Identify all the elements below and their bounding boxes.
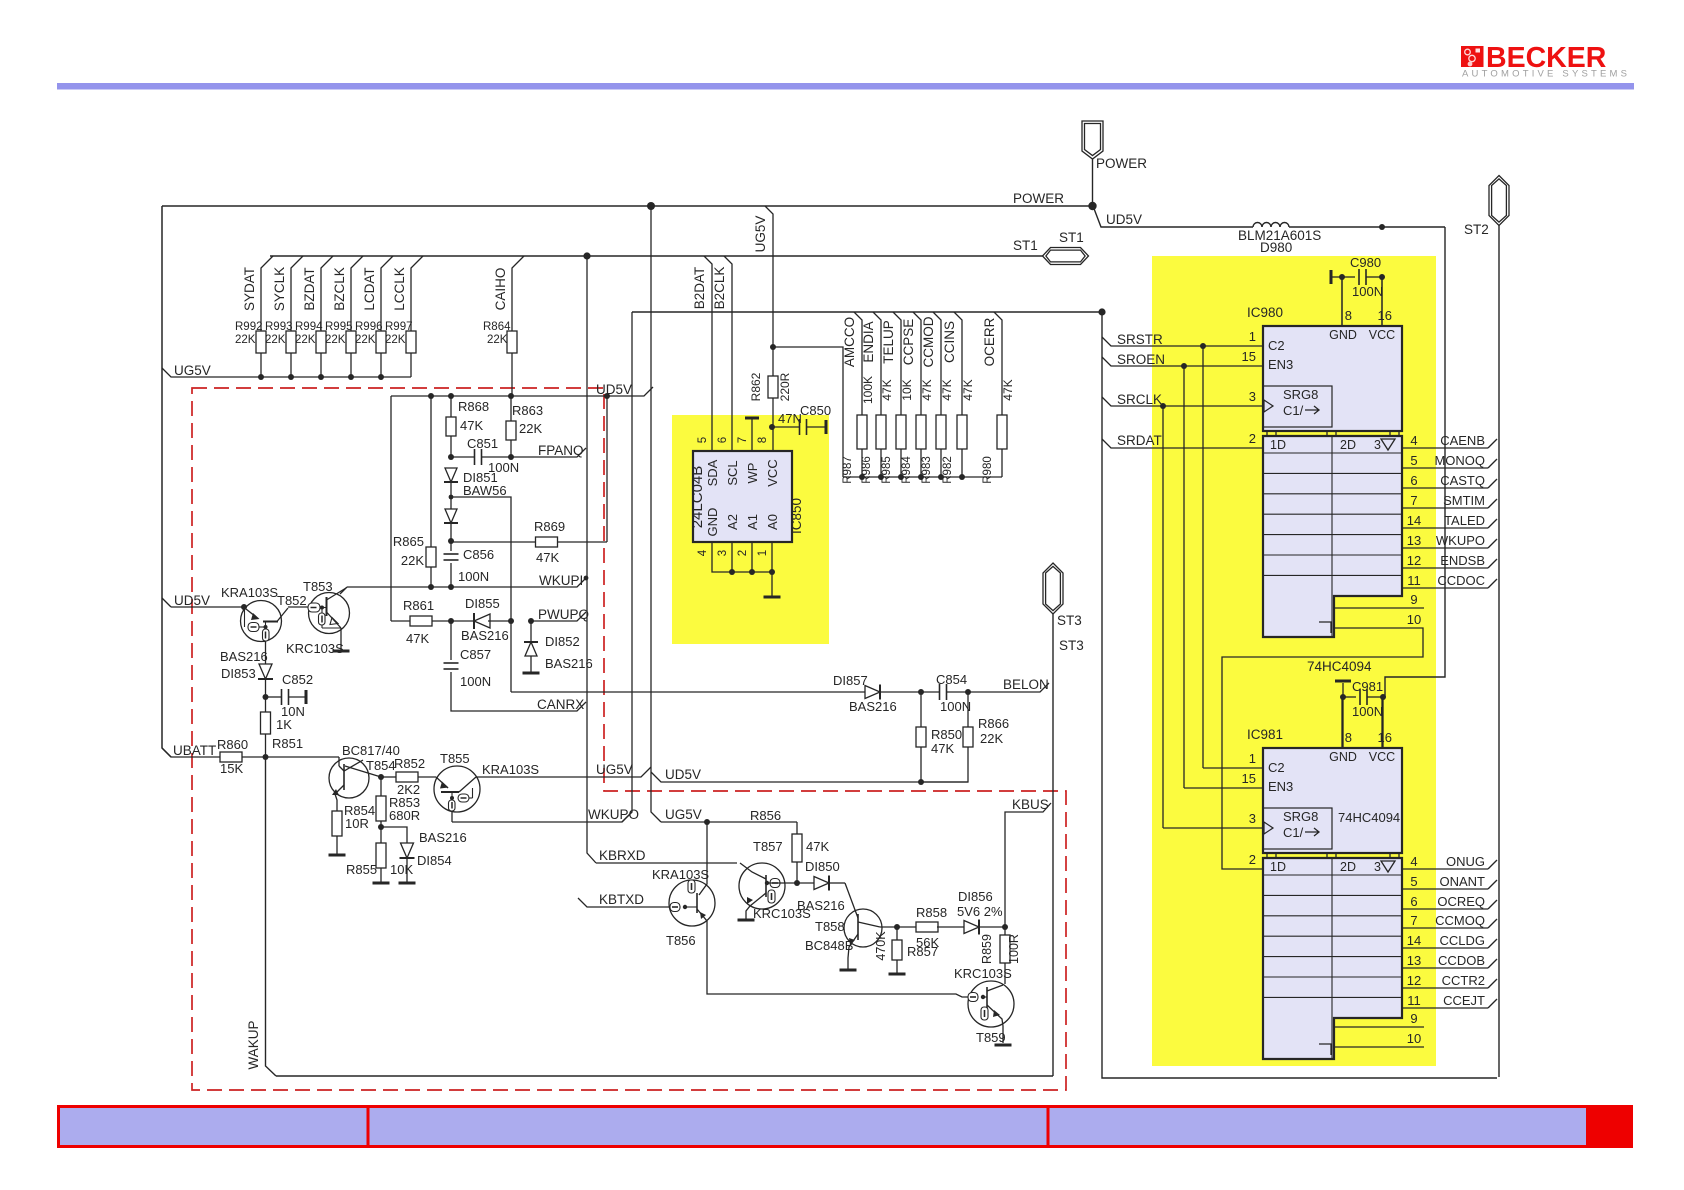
ground T858: [840, 969, 857, 972]
IC980 SRG8 box: [1263, 386, 1332, 427]
svg-text:22K: 22K: [295, 334, 316, 346]
IC850 pin 1 A0: [757, 514, 780, 556]
wire R861 row: [391, 620, 410, 622]
svg-text:3: 3: [1374, 438, 1381, 452]
node UD5V inductor junction: [1379, 224, 1385, 230]
svg-text:10: 10: [1407, 1031, 1421, 1046]
label T857: [753, 839, 783, 854]
svg-text:8: 8: [757, 437, 769, 443]
svg-text:GND: GND: [705, 508, 720, 537]
svg-text:7: 7: [1410, 493, 1417, 508]
IC850 pin 3 A2: [717, 514, 740, 556]
svg-text:CAIHO: CAIHO: [493, 268, 508, 311]
svg-text:2: 2: [737, 550, 749, 556]
capacitor C981 100N: [1335, 679, 1383, 719]
net label CCPSE: [901, 319, 916, 366]
label D980: [1260, 240, 1292, 255]
svg-text:22K: 22K: [487, 334, 508, 346]
label BELON: [1003, 677, 1049, 692]
svg-text:UD5V: UD5V: [174, 593, 210, 608]
IC981 register header: [1270, 860, 1395, 874]
wire SRSTR drop: [1202, 346, 1204, 768]
wire TALED pin14: [1402, 513, 1497, 528]
resistor R985 10K: [893, 312, 906, 477]
svg-text:UD5V: UD5V: [596, 382, 632, 397]
resistor R864 22K: [483, 256, 524, 396]
IC850 pin 7 WP: [737, 437, 760, 484]
svg-text:5: 5: [697, 437, 709, 443]
node BELON b: [965, 689, 971, 695]
svg-text:WKUPO: WKUPO: [1436, 533, 1485, 548]
IC981 pin2 label: [1249, 852, 1256, 867]
label BLM21A601S: [1238, 228, 1321, 243]
wire C980 vcc stub: [1381, 277, 1383, 326]
svg-text:R856: R856: [750, 808, 781, 823]
svg-text:4: 4: [1410, 433, 1417, 448]
svg-text:C980: C980: [1350, 255, 1381, 270]
ref label R985: [881, 456, 893, 484]
node UG5V bus junction: [318, 374, 324, 380]
label T856: [666, 933, 696, 948]
footer bar: [59, 1107, 1632, 1147]
wire IC850 gnd bus: [712, 542, 772, 572]
label ST1 b: [1059, 230, 1084, 245]
svg-text:4: 4: [697, 549, 709, 556]
wire UG5V top rail: [162, 205, 1093, 207]
net label SYCLK: [272, 267, 287, 311]
node R869 junction: [448, 538, 454, 544]
svg-text:22K: 22K: [355, 334, 376, 346]
svg-text:22K: 22K: [325, 334, 346, 346]
wire SRSTR: [1102, 332, 1263, 347]
wire ENDSB pin12: [1402, 553, 1497, 568]
node C981 right: [1380, 694, 1386, 700]
svg-text:UG5V: UG5V: [753, 216, 768, 253]
svg-text:R993: R993: [265, 321, 293, 333]
footer red block: [1586, 1105, 1633, 1148]
ref label R987: [842, 456, 854, 484]
net label LCCLK: [392, 267, 407, 311]
node ST1 rail junction: [583, 252, 590, 259]
svg-text:EN3: EN3: [1268, 357, 1293, 372]
svg-text:C1/: C1/: [1283, 825, 1304, 840]
node gnd bus A1: [749, 569, 755, 575]
node WKUPI R868col: [448, 584, 454, 590]
svg-text:R987: R987: [842, 456, 854, 484]
svg-text:DI856: DI856: [958, 889, 993, 904]
red dashed boundary: [192, 388, 1066, 1090]
net label B2CLK: [712, 267, 727, 310]
svg-text:100K: 100K: [861, 376, 875, 404]
resistor R865 22K: [393, 396, 436, 587]
svg-text:POWER: POWER: [1096, 156, 1147, 171]
svg-text:CCLDG: CCLDG: [1439, 933, 1485, 948]
svg-text:6: 6: [717, 437, 729, 443]
label FPANQ: [538, 443, 584, 458]
svg-text:SMTIM: SMTIM: [1443, 493, 1485, 508]
svg-text:ENDSB: ENDSB: [1440, 553, 1485, 568]
svg-text:ST3: ST3: [1057, 613, 1082, 628]
wire ONANT pin5: [1402, 874, 1497, 889]
svg-text:FPANQ: FPANQ: [538, 443, 584, 458]
svg-text:47K: 47K: [931, 741, 954, 756]
svg-text:47K: 47K: [940, 379, 954, 400]
IC981 pin3 wire: [1163, 811, 1263, 828]
svg-text:SRG8: SRG8: [1283, 387, 1318, 402]
svg-text:3: 3: [1249, 811, 1256, 826]
resistor R861 47K: [403, 598, 451, 646]
svg-text:T857: T857: [753, 839, 783, 854]
svg-text:10: 10: [1407, 612, 1421, 627]
svg-text:R866: R866: [978, 716, 1009, 731]
svg-text:UG5V: UG5V: [596, 762, 633, 777]
svg-text:1: 1: [757, 550, 769, 556]
net label SYDAT: [242, 267, 257, 311]
svg-text:B2DAT: B2DAT: [692, 267, 707, 310]
IC981 block notches: [1267, 853, 1399, 858]
wire x606 drop: [606, 396, 608, 542]
wire B2DAT vertical: [704, 256, 712, 451]
wire CCLDG pin14: [1402, 933, 1497, 948]
svg-text:WKUPO: WKUPO: [588, 807, 639, 822]
diode DI851 BAW56 a: [444, 468, 458, 482]
resistor R869 47K: [451, 519, 607, 565]
svg-text:SCL: SCL: [725, 460, 740, 485]
node bank bus junction: [918, 474, 924, 480]
IC980 pin3 label: [1249, 389, 1256, 404]
wire SRDAT: [1102, 433, 1263, 448]
wire UD5V rail y396: [391, 387, 653, 396]
ref label R982: [942, 456, 954, 484]
svg-text:47K: 47K: [961, 379, 975, 400]
resistor R982 47K: [954, 312, 967, 477]
label 24LC04B: [689, 466, 706, 529]
svg-text:5V6 2%: 5V6 2%: [957, 904, 1003, 919]
svg-text:PWUPQ: PWUPQ: [538, 607, 589, 622]
label BAS216 DI854: [419, 830, 467, 845]
svg-text:KBUS: KBUS: [1012, 797, 1049, 812]
svg-text:C854: C854: [936, 672, 967, 687]
node FPANQ junction R868: [448, 454, 454, 460]
node DI851 mid junction: [449, 495, 454, 500]
node UG5V T856 junction: [704, 819, 710, 825]
svg-text:MONOQ: MONOQ: [1434, 453, 1485, 468]
node POWER rail junction B: [1088, 202, 1096, 210]
label UG5V T855: [596, 762, 633, 777]
wire CAENB pin4: [1402, 433, 1497, 448]
svg-text:100N: 100N: [460, 674, 491, 689]
wire WKUPO pin13: [1402, 533, 1497, 548]
svg-text:1D: 1D: [1270, 438, 1286, 452]
svg-text:SRG8: SRG8: [1283, 809, 1318, 824]
IC980 register block: [1263, 436, 1402, 637]
label KRA103S T852: [221, 585, 278, 600]
wire T853 collector: [340, 587, 347, 594]
svg-text:KRC103S: KRC103S: [286, 641, 344, 656]
svg-text:220R: 220R: [778, 372, 792, 401]
node T857 base junction: [794, 880, 800, 886]
svg-text:CCPSE: CCPSE: [901, 319, 916, 366]
wire T857 base: [767, 882, 797, 884]
IC980 pin2 label: [1249, 431, 1256, 446]
svg-text:R860: R860: [217, 737, 248, 752]
node FPANQ junction R863: [508, 454, 514, 460]
svg-text:22K: 22K: [401, 553, 424, 568]
svg-text:R995: R995: [325, 321, 353, 333]
resistor R980 47K: [994, 312, 1007, 477]
net label TELUP: [881, 320, 896, 364]
wire UG5V drop x773: [765, 206, 773, 376]
svg-text:16: 16: [1378, 730, 1392, 745]
resistor R862 220R: [749, 372, 792, 401]
svg-text:100N: 100N: [940, 699, 971, 714]
capacitor C857 100N: [444, 621, 587, 711]
svg-text:9: 9: [1410, 592, 1417, 607]
svg-text:13: 13: [1407, 953, 1421, 968]
wire left frame vertical: [162, 206, 171, 757]
IC981 pin15 wire: [1184, 771, 1293, 794]
wire KBRXD vertical x587: [587, 256, 596, 863]
svg-text:TALED: TALED: [1444, 513, 1485, 528]
svg-text:R865: R865: [393, 534, 424, 549]
wire DI851 branch: [451, 497, 511, 692]
svg-text:SRDAT: SRDAT: [1117, 433, 1162, 448]
resistor R992 22K: [235, 256, 273, 377]
transistor T854 BC817/40: [329, 757, 369, 798]
wire PWUPQ: [531, 612, 586, 621]
svg-text:14: 14: [1407, 513, 1421, 528]
svg-text:DI857: DI857: [833, 673, 868, 688]
svg-text:R855: R855: [346, 862, 377, 877]
svg-text:KRA103S: KRA103S: [482, 762, 539, 777]
svg-text:R859: R859: [980, 934, 994, 964]
wire WKUPO vertical x632: [622, 312, 632, 822]
svg-text:CAENB: CAENB: [1440, 433, 1485, 448]
wire KBTXD: [578, 898, 670, 907]
label BC817/40: [342, 743, 400, 758]
label DI854: [417, 853, 452, 868]
svg-text:CASTQ: CASTQ: [1440, 473, 1485, 488]
svg-text:74HC4094: 74HC4094: [1338, 810, 1400, 825]
svg-text:CCMOD: CCMOD: [921, 316, 936, 367]
wire SRCLK: [1102, 392, 1263, 407]
svg-text:R851: R851: [272, 736, 303, 751]
IC980 block notches: [1267, 431, 1399, 436]
label T853: [303, 579, 333, 594]
svg-text:T852: T852: [277, 593, 307, 608]
svg-text:VCC: VCC: [1369, 750, 1395, 764]
label T855: [440, 751, 470, 766]
svg-text:1: 1: [1249, 751, 1256, 766]
svg-text:DI853: DI853: [221, 666, 256, 681]
svg-text:2: 2: [1249, 852, 1256, 867]
resistor R854 10R: [329, 794, 376, 855]
IC980 pin1 label: [1249, 329, 1285, 353]
ref label R980: [982, 456, 994, 484]
svg-text:16: 16: [1378, 308, 1392, 323]
svg-text:47K: 47K: [460, 418, 483, 433]
node UD5V rail junction: [508, 393, 514, 399]
svg-text:BC817/40: BC817/40: [342, 743, 400, 758]
svg-text:DI852: DI852: [545, 634, 580, 649]
svg-text:BAS216: BAS216: [797, 898, 845, 913]
resistor R986 47K: [873, 312, 886, 477]
resistor R996 22K: [355, 256, 393, 377]
svg-text:3: 3: [1249, 389, 1256, 404]
svg-text:15K: 15K: [220, 761, 243, 776]
wire CCDOC pin11: [1402, 573, 1497, 588]
resistor R994 22K: [295, 256, 333, 377]
wire UD5V feed: [1093, 206, 1253, 227]
svg-text:ENDIA: ENDIA: [861, 321, 876, 362]
svg-text:10K: 10K: [390, 862, 413, 877]
svg-text:100N: 100N: [458, 569, 489, 584]
svg-text:ST3: ST3: [1059, 638, 1084, 653]
node UG5V bus junction: [258, 374, 264, 380]
IC981 pin10 stub: [1334, 1031, 1424, 1047]
svg-text:7: 7: [737, 437, 749, 443]
svg-text:ST2: ST2: [1464, 222, 1489, 237]
svg-text:CCDOB: CCDOB: [1438, 953, 1485, 968]
svg-text:KRA103S: KRA103S: [221, 585, 278, 600]
resistor R997 22K: [385, 256, 423, 377]
svg-text:WKUPI: WKUPI: [539, 573, 583, 588]
label KRC103S T859: [954, 966, 1012, 981]
svg-text:BAS216: BAS216: [220, 649, 268, 664]
IC981 pin1 wire: [1203, 751, 1285, 775]
svg-text:15: 15: [1242, 771, 1256, 786]
Becker logo text: [1462, 42, 1628, 80]
svg-text:SRSTR: SRSTR: [1117, 332, 1163, 347]
svg-text:A2: A2: [725, 514, 740, 530]
transistor T853 KRC103S: [308, 588, 350, 634]
svg-text:R858: R858: [916, 905, 947, 920]
value label 47K: [920, 379, 934, 400]
connector ST1: [1043, 248, 1089, 265]
svg-text:R861: R861: [403, 598, 434, 613]
svg-text:KRC103S: KRC103S: [954, 966, 1012, 981]
diode DI853 BAS216: [258, 641, 273, 697]
ground T857: [738, 919, 755, 922]
IC850 pin 8 VCC: [757, 437, 780, 487]
IC850 pin 6 SCL: [717, 437, 740, 486]
label POWER connector: [1096, 156, 1147, 171]
label IC850: [789, 498, 804, 534]
node UD5V rail junction: [448, 393, 454, 399]
transistor T857 KRC103S: [739, 863, 785, 919]
wire UD5V row2: [651, 772, 968, 782]
wire FPANQ: [511, 448, 586, 457]
label ST3 b: [1059, 638, 1084, 653]
diode DI851 BAW56 b: [444, 482, 458, 541]
svg-text:R997: R997: [385, 321, 413, 333]
net label CCINS: [942, 321, 957, 363]
wire ST1 rail: [270, 255, 1043, 257]
node C852 junction: [263, 694, 269, 700]
label IC981: [1247, 727, 1283, 742]
wire BELON row: [511, 691, 865, 693]
wire right section frame: [1102, 312, 1497, 1078]
svg-text:R869: R869: [534, 519, 565, 534]
label WKUPO: [588, 807, 639, 822]
diode DI850 BAS216: [797, 859, 845, 913]
svg-text:C1/: C1/: [1283, 403, 1304, 418]
svg-text:TELUP: TELUP: [881, 320, 896, 364]
net label AMCCO: [842, 317, 857, 367]
svg-text:T855: T855: [440, 751, 470, 766]
svg-text:CCEJT: CCEJT: [1443, 993, 1485, 1008]
node C980 right: [1379, 274, 1385, 280]
wire MONOQ pin5: [1402, 453, 1497, 468]
label UD5V row2: [665, 767, 701, 782]
node bank bus junction: [938, 474, 944, 480]
IC981 pin8 GND: [1329, 699, 1357, 764]
resistor R984 47K: [913, 312, 926, 477]
svg-text:24LC04B: 24LC04B: [689, 466, 706, 529]
svg-text:680R: 680R: [389, 808, 420, 823]
node R861 out: [448, 618, 454, 624]
svg-text:LCDAT: LCDAT: [362, 267, 377, 310]
svg-text:100N: 100N: [1352, 284, 1383, 299]
op-amp IC980 control block: [1263, 326, 1402, 431]
connector POWER: [1082, 121, 1103, 206]
wire SROEN drop: [1183, 366, 1185, 788]
wire WKUPO row: [452, 812, 632, 822]
wire UD5V stub: [162, 598, 171, 607]
resistor R852 2K2: [381, 756, 425, 797]
IC980 pin10 cascade: [1222, 612, 1423, 869]
svg-text:DI850: DI850: [805, 859, 840, 874]
svg-text:6: 6: [1410, 473, 1417, 488]
node POWER rail junction A: [647, 202, 655, 210]
ref label R986: [861, 456, 873, 484]
svg-text:10K: 10K: [900, 379, 914, 400]
label ST2: [1464, 222, 1489, 237]
svg-text:22K: 22K: [235, 334, 256, 346]
header rule: [57, 83, 1634, 90]
svg-text:SRCLK: SRCLK: [1117, 392, 1162, 407]
label UG5V left: [174, 363, 211, 378]
svg-text:15: 15: [1242, 349, 1256, 364]
node bank bus junction: [959, 474, 965, 480]
wire SRCLK drop: [1162, 406, 1164, 828]
wire OCREQ pin6: [1402, 894, 1497, 909]
wire T855 collector UG5V: [476, 767, 651, 777]
resistor R993 22K: [265, 256, 303, 377]
transistor T852 KRA103S: [171, 601, 309, 644]
resistor R851 1K: [261, 697, 304, 757]
svg-text:2: 2: [1249, 431, 1256, 446]
svg-text:47K: 47K: [536, 550, 559, 565]
resistor R863 22K: [506, 396, 543, 457]
IC981 pin16 VCC: [1369, 699, 1395, 764]
svg-text:47K: 47K: [806, 839, 829, 854]
svg-text:T856: T856: [666, 933, 696, 948]
label KRA103S T856: [652, 867, 709, 882]
IC980 pin15 label: [1242, 349, 1294, 372]
svg-text:1: 1: [1249, 329, 1256, 344]
wire resistor bank bus: [843, 476, 1002, 478]
label BAS216 DI853: [220, 649, 268, 664]
svg-text:R985: R985: [881, 456, 893, 484]
capacitor C854 100N: [921, 672, 971, 714]
svg-text:ONUG: ONUG: [1446, 854, 1485, 869]
wire SR rail y312: [632, 311, 1102, 313]
wire UBATT to T854: [266, 756, 340, 758]
IC981 register block: [1263, 858, 1402, 1059]
node gnd bus A2: [729, 569, 735, 575]
label UD5V y396: [596, 382, 632, 397]
